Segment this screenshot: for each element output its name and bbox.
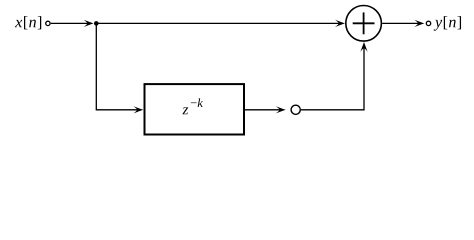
op adder U1 (summing junction) (346, 6, 382, 42)
wire tap to adder bottom (301, 48, 364, 110)
wire adder to output (382, 22, 419, 24)
output terminal (426, 21, 430, 25)
wire delay block to tap (245, 109, 281, 111)
arrowhead into adder (335, 20, 345, 27)
arrowhead into tap circle (276, 106, 286, 113)
delay block z^-k (145, 84, 245, 134)
plus sign (353, 12, 375, 34)
label x[n] (15, 16, 41, 29)
arrowhead up into adder (360, 42, 367, 52)
label z^-k (182, 98, 203, 114)
node junction dot (94, 21, 99, 26)
wire input to junction (51, 22, 88, 24)
arrowhead into delay block (133, 106, 143, 113)
wire junction to adder (96, 22, 339, 24)
tap node (open circle) (291, 105, 300, 114)
wire junction down and to delay block (96, 23, 138, 109)
input terminal (46, 21, 50, 25)
arrowhead into output terminal (414, 20, 424, 27)
arrowhead into junction (84, 20, 94, 27)
label y[n] (434, 16, 461, 31)
